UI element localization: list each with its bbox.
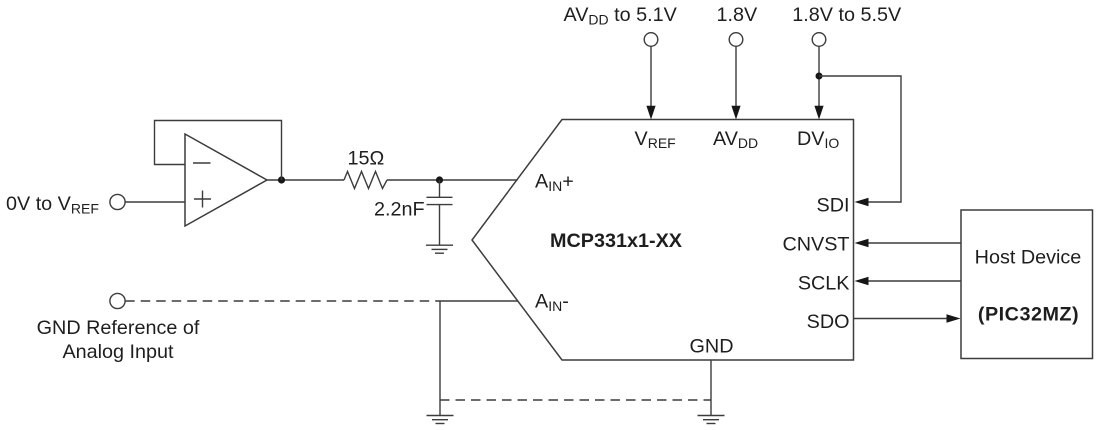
svg-text:GND: GND: [690, 336, 734, 358]
svg-text:GND Reference of: GND Reference of: [37, 317, 200, 339]
svg-text:2.2nF: 2.2nF: [374, 198, 425, 220]
svg-text:SDI: SDI: [817, 195, 850, 217]
svg-text:MCP331x1-XX: MCP331x1-XX: [550, 230, 683, 252]
svg-text:SCLK: SCLK: [798, 273, 850, 295]
svg-text:Host Device: Host Device: [975, 247, 1082, 269]
svg-text:AVDD to 5.1V: AVDD to 5.1V: [564, 4, 678, 28]
svg-text:Analog Input: Analog Input: [62, 341, 174, 363]
svg-text:15Ω: 15Ω: [348, 148, 385, 170]
svg-text:1.8V to 5.5V: 1.8V to 5.5V: [792, 4, 902, 26]
svg-text:(PIC32MZ): (PIC32MZ): [978, 304, 1079, 326]
svg-text:CNVST: CNVST: [782, 234, 849, 256]
svg-text:1.8V: 1.8V: [717, 4, 758, 26]
svg-text:SDO: SDO: [807, 311, 850, 333]
